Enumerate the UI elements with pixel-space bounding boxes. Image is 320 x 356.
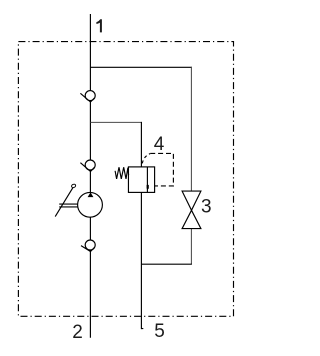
pump lever arm <box>55 188 73 217</box>
port label 1 <box>96 19 102 32</box>
shut-off valve 3 lower triangle <box>182 210 201 228</box>
check valve ball middle <box>85 160 95 170</box>
relief valve internal arrowhead <box>147 185 149 190</box>
relief valve pilot line (dashed) <box>142 154 150 164</box>
wire branch to relief valve 4 horizontal <box>90 121 141 123</box>
check valve seat middle <box>80 163 94 172</box>
relief valve U4 body <box>128 167 154 193</box>
hand pump circle <box>78 192 103 217</box>
enclosure dash-dot border <box>18 42 233 317</box>
pump lever fulcrum lines <box>59 203 77 205</box>
wire branch to valve 3 horizontal <box>90 66 191 68</box>
port 5 end stub <box>141 328 143 330</box>
wire branch to valve 3 vertical <box>190 67 192 191</box>
check valve ball upper <box>85 91 95 101</box>
svg-text:4: 4 <box>154 134 165 155</box>
wire valve 3 outlet vertical <box>190 229 192 265</box>
svg-text:2: 2 <box>72 322 83 343</box>
check valve ball lower <box>85 240 95 250</box>
wire relief valve outlet to port 5 <box>140 192 142 329</box>
shut-off valve 3 upper triangle <box>182 191 201 210</box>
pump lever knob <box>71 184 76 189</box>
relief valve internal flow line <box>146 167 148 192</box>
check valve seat lower <box>81 246 95 252</box>
relief valve spring <box>115 167 129 179</box>
svg-text:3: 3 <box>201 197 212 218</box>
pump flow triangle <box>88 192 94 197</box>
wire valve 3 outlet horizontal <box>141 263 192 265</box>
wire port 1 main vertical line <box>89 14 91 338</box>
wire branch to relief valve 4 vertical <box>140 122 142 167</box>
svg-text:5: 5 <box>154 321 165 342</box>
check valve seat upper <box>80 93 94 102</box>
